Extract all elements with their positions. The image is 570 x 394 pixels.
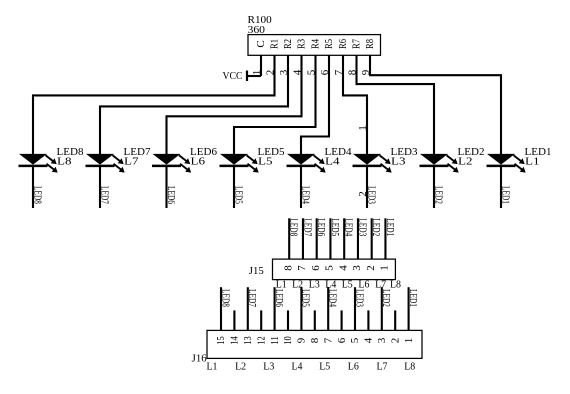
svg-text:LED2: LED2 [370, 218, 382, 236]
svg-text:LED4: LED4 [343, 218, 355, 236]
svg-text:L2: L2 [235, 362, 246, 373]
svg-text:R5: R5 [323, 39, 335, 49]
svg-text:L6: L6 [191, 157, 206, 168]
svg-text:LED6: LED6 [315, 218, 327, 236]
svg-text:2: 2 [389, 338, 401, 344]
svg-text:LED8: LED8 [288, 218, 300, 236]
svg-text:7: 7 [322, 337, 334, 343]
svg-text:1: 1 [357, 125, 369, 131]
svg-text:3: 3 [351, 265, 363, 271]
svg-text:L3: L3 [391, 157, 406, 168]
svg-text:8: 8 [309, 337, 321, 343]
svg-text:LED4: LED4 [327, 289, 339, 307]
svg-text:L4: L4 [325, 157, 340, 168]
svg-text:LED2: LED2 [380, 289, 392, 307]
svg-text:LED7: LED7 [99, 186, 111, 204]
svg-text:LED4: LED4 [300, 186, 312, 204]
svg-text:LED1: LED1 [407, 289, 419, 307]
svg-text:LED8: LED8 [32, 186, 44, 204]
svg-text:5: 5 [324, 265, 336, 271]
svg-text:3: 3 [376, 337, 388, 343]
svg-text:L1: L1 [525, 157, 540, 168]
svg-text:10: 10 [282, 336, 294, 345]
svg-text:R4: R4 [309, 39, 321, 49]
svg-text:14: 14 [229, 336, 241, 345]
svg-text:LED1: LED1 [384, 218, 396, 236]
svg-text:L5: L5 [319, 362, 330, 373]
svg-text:LED5: LED5 [233, 186, 245, 204]
svg-text:LED1: LED1 [500, 186, 512, 204]
svg-text:LED6: LED6 [273, 289, 285, 307]
svg-text:6: 6 [310, 265, 322, 271]
svg-text:6: 6 [336, 337, 348, 343]
svg-text:C: C [255, 40, 267, 47]
svg-text:LED6: LED6 [165, 186, 177, 204]
svg-text:R7: R7 [350, 39, 362, 49]
svg-text:L3: L3 [263, 362, 274, 373]
svg-text:7: 7 [296, 265, 308, 271]
svg-text:L8: L8 [57, 157, 72, 168]
svg-text:R6: R6 [337, 39, 349, 49]
svg-text:2: 2 [365, 265, 377, 271]
svg-text:LED5: LED5 [300, 289, 312, 307]
svg-text:15: 15 [215, 336, 227, 345]
svg-text:LED3: LED3 [356, 218, 368, 236]
svg-text:1: 1 [403, 338, 415, 344]
svg-text:L7: L7 [124, 157, 139, 168]
svg-text:VCC: VCC [223, 71, 243, 82]
svg-text:J15: J15 [249, 266, 264, 277]
svg-text:5: 5 [349, 337, 361, 343]
svg-text:11: 11 [269, 336, 281, 345]
svg-text:L6: L6 [348, 362, 359, 373]
svg-text:LED8: LED8 [219, 289, 231, 307]
svg-text:L5: L5 [258, 157, 273, 168]
svg-text:L1: L1 [207, 362, 218, 373]
svg-text:2: 2 [357, 191, 369, 197]
svg-text:R2: R2 [282, 39, 294, 49]
svg-text:R1: R1 [268, 39, 280, 49]
svg-text:L4: L4 [292, 362, 303, 373]
svg-text:4: 4 [363, 337, 375, 343]
svg-text:LED2: LED2 [433, 186, 445, 204]
svg-text:13: 13 [242, 336, 254, 345]
svg-text:LED5: LED5 [329, 218, 341, 236]
svg-text:4: 4 [337, 265, 349, 271]
svg-text:LED7: LED7 [301, 218, 313, 236]
svg-text:R3: R3 [295, 39, 307, 49]
svg-text:R8: R8 [364, 39, 376, 49]
svg-text:1: 1 [379, 265, 391, 271]
svg-text:L2: L2 [458, 157, 473, 168]
svg-text:9: 9 [296, 337, 308, 343]
svg-text:LED7: LED7 [246, 289, 258, 307]
svg-text:8: 8 [282, 265, 294, 271]
svg-text:L8: L8 [404, 362, 415, 373]
svg-text:L7: L7 [377, 362, 388, 373]
svg-text:J16: J16 [192, 354, 207, 365]
svg-text:12: 12 [255, 336, 267, 345]
svg-text:L5: L5 [342, 280, 353, 291]
svg-text:LED3: LED3 [353, 289, 365, 307]
